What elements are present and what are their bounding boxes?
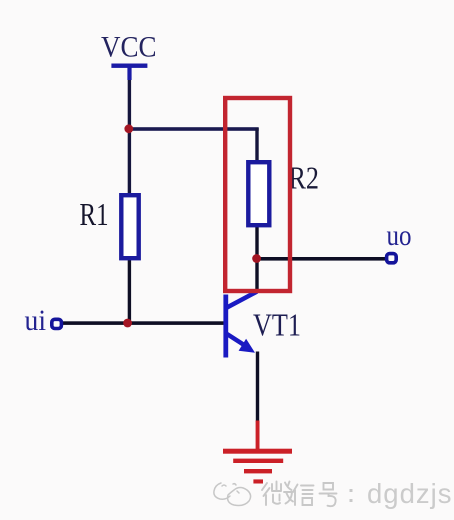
svg-text:R1: R1 xyxy=(80,197,109,232)
power symbol VCC bar xyxy=(111,64,147,81)
wire: R2 bottom to collector xyxy=(255,226,258,292)
svg-text:VCC: VCC xyxy=(101,32,157,64)
svg-text:ui: ui xyxy=(25,304,47,337)
wire: top horizontal from junction A to R2 column xyxy=(127,127,259,131)
svg-text:R2: R2 xyxy=(289,161,320,196)
wire: emitter down to ground xyxy=(256,352,259,422)
junction node A (VCC/R1) xyxy=(124,124,133,133)
resistor R1 xyxy=(121,195,138,258)
input terminal ui xyxy=(52,319,62,328)
svg-text:dgdzjs: dgdzjs xyxy=(367,478,453,509)
svg-text:uo: uo xyxy=(387,219,412,252)
wire: drop from top wire to R2 top xyxy=(255,128,258,163)
ground xyxy=(223,421,292,484)
wire: ui terminal to transistor base xyxy=(62,321,225,325)
output terminal uo xyxy=(387,254,397,263)
watermark logo sketch xyxy=(214,483,251,506)
svg-text:VT1: VT1 xyxy=(253,307,301,343)
watermark text 微信号: xyxy=(262,482,337,507)
watermark colon xyxy=(350,489,353,502)
wire: R1 bottom to ui rail xyxy=(128,258,131,324)
junction node B (ui/R1) xyxy=(123,319,132,328)
wire: collector junction to uo terminal xyxy=(256,257,387,261)
resistor R2 xyxy=(248,162,269,225)
wire: VCC stem to junction A xyxy=(128,70,131,130)
transistor VT1 xyxy=(223,292,257,358)
junction node C (R2/uo) xyxy=(252,254,261,263)
highlight red box around R2 xyxy=(225,98,290,291)
wire: junction A to R1 top xyxy=(128,129,131,195)
